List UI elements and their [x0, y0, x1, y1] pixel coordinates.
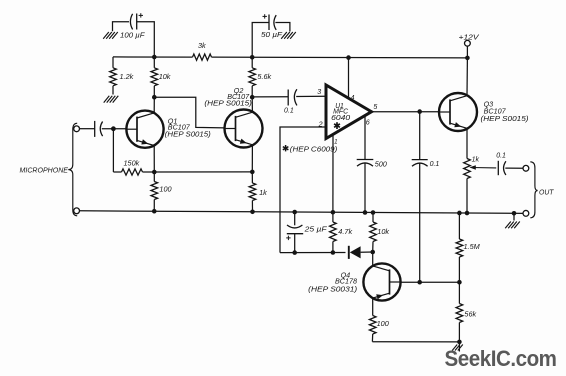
svg-text:4.7k: 4.7k — [338, 227, 352, 236]
svg-text:150k: 150k — [124, 159, 140, 168]
svg-text:(HEP S0015): (HEP S0015) — [481, 114, 529, 123]
svg-text:3: 3 — [317, 88, 321, 96]
svg-text:(HEP S0015): (HEP S0015) — [204, 99, 252, 108]
svg-text:(HEP S0031): (HEP S0031) — [308, 284, 357, 293]
svg-text:56k: 56k — [464, 310, 476, 319]
svg-text:2: 2 — [318, 121, 323, 129]
svg-text:10k: 10k — [377, 227, 389, 236]
svg-text:1k: 1k — [259, 188, 267, 197]
svg-text:(HEP C6009): (HEP C6009) — [290, 146, 338, 153]
svg-text:1k: 1k — [472, 157, 480, 164]
svg-text:0.1: 0.1 — [496, 153, 506, 160]
svg-text:500: 500 — [375, 159, 387, 168]
svg-text:4: 4 — [351, 94, 355, 102]
svg-text:25 µF: 25 µF — [303, 227, 327, 234]
svg-text:100 µF: 100 µF — [120, 31, 145, 40]
svg-text:100: 100 — [159, 185, 171, 194]
svg-text:100: 100 — [377, 319, 389, 328]
svg-text:0.1: 0.1 — [430, 161, 440, 168]
svg-text:6040: 6040 — [331, 115, 350, 122]
svg-text:3k: 3k — [198, 41, 206, 50]
svg-text:MICROPHONE: MICROPHONE — [20, 168, 69, 175]
svg-text:5: 5 — [373, 103, 377, 111]
svg-text:50 µF: 50 µF — [261, 30, 283, 39]
svg-text:1.2k: 1.2k — [120, 72, 134, 81]
svg-text:0.1: 0.1 — [284, 108, 294, 115]
svg-text:(HEP S0015): (HEP S0015) — [165, 129, 211, 138]
svg-text:+12V: +12V — [459, 33, 480, 42]
svg-text:SeekIC.com: SeekIC.com — [445, 346, 557, 371]
svg-text:1.5M: 1.5M — [464, 242, 481, 251]
svg-text:OUT: OUT — [539, 189, 554, 196]
svg-text:1: 1 — [334, 139, 337, 146]
svg-text:5.6k: 5.6k — [257, 72, 271, 81]
svg-text:6: 6 — [366, 118, 370, 126]
svg-text:10k: 10k — [159, 72, 171, 81]
